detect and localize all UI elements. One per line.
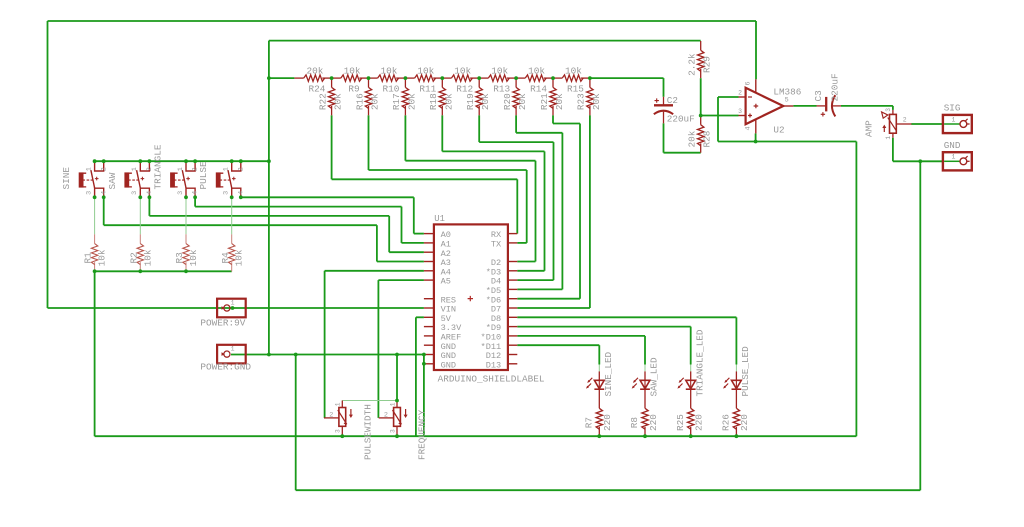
wire AMP pin2 to SIG xyxy=(911,123,943,125)
wire down to AMP pin3 xyxy=(892,106,894,110)
junction ladder left end xyxy=(267,76,271,80)
svg-text:3: 3 xyxy=(131,191,139,195)
wire R22 to RX drop xyxy=(331,115,333,179)
svg-text:20k: 20k xyxy=(480,93,491,110)
resistor R26 (220) xyxy=(733,399,739,436)
junction FREQUENCY pin3 rail xyxy=(395,434,399,438)
svg-text:PULSE: PULSE xyxy=(198,161,209,190)
junction button1 pin4 xyxy=(102,195,106,199)
resistor R19 (20k) xyxy=(476,78,482,115)
wire 9V net top border horizontal xyxy=(48,20,757,22)
svg-text:1: 1 xyxy=(335,402,342,406)
wire R22 to RX horizontal xyxy=(332,178,518,180)
resistor R11 (10k) xyxy=(405,75,442,81)
wire R22 to RX vertical xyxy=(516,179,518,233)
junction button1 pin1 xyxy=(93,159,97,163)
pushbutton S4 PULSE xyxy=(216,161,241,197)
svg-text:1: 1 xyxy=(231,346,235,353)
junction LED resistor rail xyxy=(643,434,647,438)
wire R21 to D6 horizontal xyxy=(553,123,580,125)
svg-text:R8: R8 xyxy=(629,417,640,429)
resistor R21 (20k) xyxy=(550,78,556,115)
svg-text:3: 3 xyxy=(85,191,93,195)
junction button2 pin2 xyxy=(148,159,152,163)
resistor R1 (10k) xyxy=(91,234,97,271)
svg-text:1: 1 xyxy=(231,300,235,307)
wire R18 to D3 vertical xyxy=(544,151,546,270)
svg-text:1: 1 xyxy=(177,167,185,171)
svg-text:FREQUENCY: FREQUENCY xyxy=(416,409,427,460)
wire button pin3 to R4 xyxy=(231,197,233,234)
svg-text:R25: R25 xyxy=(675,414,686,431)
wire D pin to PULSE_LED xyxy=(517,316,736,318)
svg-text:R20: R20 xyxy=(502,93,513,110)
wire R16 to TX horizontal xyxy=(369,169,527,171)
svg-text:2: 2 xyxy=(738,90,742,97)
resistor R3 (10k) xyxy=(183,234,189,271)
wire R23 to D7 into pin xyxy=(517,307,590,309)
wire R20 to D5 horizontal xyxy=(516,132,562,134)
svg-text:10k: 10k xyxy=(454,65,471,76)
svg-text:R14: R14 xyxy=(530,84,547,95)
wire GND net horizontal xyxy=(231,354,424,356)
wire long vertical x=269 xyxy=(268,41,270,355)
wire up to GND wire xyxy=(295,355,297,491)
LED TRIANGLE_LED xyxy=(677,371,695,399)
wire R17 to D2 horizontal xyxy=(405,160,535,162)
wire R19 to D4 drop xyxy=(478,115,480,142)
junction GND pin row14 xyxy=(422,362,426,366)
pushbutton S1 SINE xyxy=(79,161,104,197)
junction ladder node 6 xyxy=(514,76,518,80)
resistor R25 (220) xyxy=(688,399,694,436)
junction button3 pin2 xyxy=(193,159,197,163)
wire PULSE_LED drop xyxy=(735,317,737,364)
connector GND output xyxy=(943,152,972,170)
wire 9V net left border vertical xyxy=(47,21,49,308)
resistor R8 (220) xyxy=(642,399,648,436)
svg-text:AMP: AMP xyxy=(864,120,875,137)
svg-text:R29: R29 xyxy=(702,56,713,73)
svg-text:PULSEWIDTH: PULSEWIDTH xyxy=(362,404,373,460)
svg-text:R24: R24 xyxy=(309,84,326,95)
connector SIG output xyxy=(943,115,972,133)
wire SAW to A2 into pin xyxy=(389,251,424,253)
IC U1 ARDUINO_SHIELDLABEL xyxy=(424,224,517,370)
wire SINE_LED drop xyxy=(598,345,600,364)
svg-text:U2: U2 xyxy=(773,125,784,136)
wire button pin3 to R2 xyxy=(139,197,141,234)
svg-text:10k: 10k xyxy=(142,249,153,266)
connector POWER:GND xyxy=(217,345,246,364)
wire PULSE to A0 into pin xyxy=(414,233,424,235)
wire SAW to A2 drop xyxy=(148,197,150,216)
svg-text:2: 2 xyxy=(903,117,907,124)
resistor R9 (10k) xyxy=(331,75,368,81)
svg-text:R12: R12 xyxy=(456,84,473,95)
wire R17 to D2 vertical xyxy=(535,161,537,262)
resistor R22 (20k) xyxy=(328,78,334,115)
resistor R17 (20k) xyxy=(402,78,408,115)
wire R17 to D2 into pin xyxy=(517,261,535,263)
wire ladder left segment xyxy=(269,77,295,79)
svg-text:2: 2 xyxy=(384,411,388,419)
potentiometer PULSEWIDTH xyxy=(324,401,353,427)
wire pin4 node to right xyxy=(756,141,857,143)
wire D pin to TRIANGLE_LED xyxy=(517,326,690,328)
svg-text:10k: 10k xyxy=(528,65,545,76)
svg-text:20k: 20k xyxy=(443,93,454,110)
svg-text:10k: 10k xyxy=(344,65,361,76)
svg-text:10k: 10k xyxy=(234,249,245,266)
wire right vertical down xyxy=(919,161,921,490)
svg-text:2: 2 xyxy=(237,167,245,171)
junction POWER:9V pin xyxy=(231,306,235,310)
wire TRIANGLE to A1 drop xyxy=(194,197,196,206)
resistor R20 (20k) xyxy=(513,78,519,115)
wire U2 out to C3 xyxy=(793,105,816,107)
wire PULSEWIDTH pin3 to rail xyxy=(341,426,343,436)
svg-text:20k: 20k xyxy=(333,93,344,110)
wire TRIANGLE to A1 into pin xyxy=(402,242,424,244)
svg-text:1: 1 xyxy=(223,167,231,171)
wire R18 to D3 horizontal xyxy=(442,150,544,152)
svg-text:4: 4 xyxy=(192,191,200,195)
svg-text:A5: A5 xyxy=(441,277,451,287)
svg-text:R9: R9 xyxy=(348,84,359,95)
svg-text:5: 5 xyxy=(785,97,789,105)
svg-text:SIG: SIG xyxy=(944,103,961,114)
svg-text:220: 220 xyxy=(694,414,705,431)
svg-text:R1: R1 xyxy=(83,252,94,264)
svg-text:R10: R10 xyxy=(383,84,400,95)
wire C3 to AMP pot xyxy=(841,105,893,107)
wire SINE to A3 vertical xyxy=(376,225,378,261)
resistor R10 (10k) xyxy=(368,75,405,81)
svg-text:20k: 20k xyxy=(591,93,602,110)
junction button4 pin4 xyxy=(239,195,243,199)
wire 5V down to rail xyxy=(415,317,417,436)
capacitor C3 (220uF) xyxy=(817,95,842,116)
resistor R13 (10k) xyxy=(479,75,516,81)
resistor R15 (10k) xyxy=(553,75,590,81)
junction R2 bottom xyxy=(138,269,142,273)
wire ladder output right segment xyxy=(590,77,664,79)
svg-text:R23: R23 xyxy=(576,93,587,110)
svg-text:1: 1 xyxy=(85,167,93,171)
wire feedback to pin4 node xyxy=(718,141,756,143)
wire to GND box xyxy=(893,160,943,162)
svg-text:20k: 20k xyxy=(406,93,417,110)
svg-text:TX: TX xyxy=(491,240,501,250)
wire bottom rail xyxy=(95,435,857,437)
junction GND/vertical xyxy=(267,353,271,357)
svg-text:PULSE_LED: PULSE_LED xyxy=(740,346,751,397)
wire GND pins down to rail xyxy=(423,364,425,436)
LED PULSE_LED xyxy=(723,371,741,399)
junction button4 pin2 xyxy=(239,159,243,163)
wire R16 to TX drop xyxy=(368,115,370,170)
junction bus / vertical xyxy=(267,159,271,163)
junction button3 pin3 xyxy=(184,195,188,199)
junction button1 pin3 xyxy=(93,195,97,199)
svg-text:20k: 20k xyxy=(687,130,698,147)
wire feedback vertical xyxy=(717,97,719,142)
svg-text:POWER:GND: POWER:GND xyxy=(200,361,251,372)
svg-text:20k: 20k xyxy=(370,93,381,110)
wire SAW to A2 vertical xyxy=(388,216,390,252)
junction ladder node 4 xyxy=(440,76,444,80)
wire SAW_LED drop xyxy=(644,336,646,365)
capacitor C2 (220uF) xyxy=(654,97,673,124)
svg-text:C2: C2 xyxy=(667,95,678,106)
junction PULSEWIDTH pin3 rail xyxy=(340,434,344,438)
wire R19 to D4 horizontal xyxy=(479,141,553,143)
svg-text:R18: R18 xyxy=(428,93,439,110)
wire C2 bottom to R28 bottom xyxy=(664,152,701,154)
svg-text:3: 3 xyxy=(885,108,892,112)
wire TRIANGLE to A1 horizontal xyxy=(195,206,401,208)
wire TRIANGLE_LED drop pale end xyxy=(690,365,692,372)
svg-text:220: 220 xyxy=(602,414,613,431)
wire pots pin1 up to GND xyxy=(396,355,398,401)
wire SAW to A2 horizontal xyxy=(149,215,389,217)
wire A5 down to FREQUENCY pin2 xyxy=(377,280,379,418)
junction ladder node 5 xyxy=(477,76,481,80)
wire button pin3 to R1 xyxy=(94,197,96,234)
svg-text:ARDUINO_SHIELDLABEL: ARDUINO_SHIELDLABEL xyxy=(438,374,545,385)
junction GND/bottom loop xyxy=(294,353,298,357)
potentiometer FREQUENCY xyxy=(379,401,408,427)
svg-text:R22: R22 xyxy=(317,93,328,110)
wire R23 to D7 vertical xyxy=(589,115,591,308)
junction LED resistor rail xyxy=(689,434,693,438)
wire U2 pin4 down xyxy=(755,133,757,141)
svg-text:R2: R2 xyxy=(128,252,139,263)
wire R21 to D6 drop xyxy=(552,115,554,123)
svg-text:R7: R7 xyxy=(584,417,595,428)
wire GND pins link xyxy=(423,355,425,364)
svg-text:220: 220 xyxy=(739,414,750,431)
svg-text:SINE_LED: SINE_LED xyxy=(603,351,614,396)
svg-text:6: 6 xyxy=(744,81,752,85)
svg-text:1: 1 xyxy=(952,154,956,161)
resistor R16 (20k) xyxy=(365,78,371,115)
wire R18 to D3 into pin xyxy=(517,270,544,272)
junction button4 pin3 xyxy=(230,195,234,199)
svg-text:4: 4 xyxy=(146,191,154,195)
wire 9V net down to U2 pin6 xyxy=(755,21,757,79)
wire D pin to SINE_LED xyxy=(517,344,599,346)
junction button3 pin4 xyxy=(193,195,197,199)
svg-text:10k: 10k xyxy=(381,65,398,76)
junction ladder node 7 xyxy=(551,76,555,80)
wire R19 to D4 vertical xyxy=(553,142,555,280)
junction U2 pin4 node xyxy=(754,140,758,144)
connector POWER:9V xyxy=(217,299,246,318)
svg-text:C3: C3 xyxy=(813,90,824,102)
svg-text:R4: R4 xyxy=(220,252,231,264)
wire A4 horizontal xyxy=(325,270,424,272)
wire 5V stub xyxy=(416,316,424,318)
svg-text:R15: R15 xyxy=(567,84,584,95)
svg-text:3: 3 xyxy=(335,429,342,433)
wire bottom horizontal xyxy=(296,489,921,491)
wire R20 to D5 into pin xyxy=(517,288,562,290)
resistor R2 (10k) xyxy=(137,234,143,271)
pushbutton S2 SAW xyxy=(124,161,149,197)
wire SAW_LED drop pale end xyxy=(644,365,646,372)
svg-text:3: 3 xyxy=(223,191,231,195)
svg-text:R13: R13 xyxy=(493,84,510,95)
svg-text:1: 1 xyxy=(952,116,956,123)
svg-text:1: 1 xyxy=(131,167,139,171)
pushbutton S3 TRIANGLE xyxy=(170,161,195,197)
wire button pin3 to R3 xyxy=(185,197,187,234)
svg-text:GND: GND xyxy=(944,140,961,151)
wire 9V net to POWER:9V and U1 VIN xyxy=(48,307,424,309)
svg-text:3: 3 xyxy=(389,429,396,433)
junction LED resistor rail xyxy=(735,434,739,438)
wire PULSE to A0 horizontal xyxy=(241,196,414,198)
svg-text:4: 4 xyxy=(744,126,752,130)
wire A4 down to PULSEWIDTH pin2 xyxy=(324,271,326,418)
svg-text:POWER:9V: POWER:9V xyxy=(200,318,245,329)
junction button4 pin1 xyxy=(230,159,234,163)
svg-text:R26: R26 xyxy=(721,414,732,431)
svg-text:TRIANGLE_LED: TRIANGLE_LED xyxy=(694,329,705,396)
wire SINE to A3 drop xyxy=(103,197,105,225)
svg-text:SAW: SAW xyxy=(107,172,118,189)
wire R21 to D6 into pin xyxy=(517,298,580,300)
resistor R24 (20k) xyxy=(294,75,331,81)
wire down to bottom rail xyxy=(855,142,857,437)
wire bus down to rail xyxy=(94,271,96,436)
svg-text:GND: GND xyxy=(441,360,456,370)
svg-text:1: 1 xyxy=(885,136,892,140)
svg-text:220uF: 220uF xyxy=(830,73,841,101)
junction button1 pin2 xyxy=(102,159,106,163)
resistor R29 (2.2k) xyxy=(698,41,704,78)
junction ladder node 1 xyxy=(330,76,334,80)
svg-text:4: 4 xyxy=(237,191,245,195)
junction R29/R28/pin3 node xyxy=(699,114,703,118)
junction ladder node 2 xyxy=(367,76,371,80)
svg-text:3: 3 xyxy=(738,108,742,115)
wire pots pin1 bus xyxy=(342,400,397,402)
svg-text:10k: 10k xyxy=(565,65,582,76)
wire R20 to D5 drop xyxy=(515,115,517,133)
svg-text:2: 2 xyxy=(100,167,108,171)
svg-text:R17: R17 xyxy=(391,93,402,110)
junction GND/pots xyxy=(395,353,399,357)
wire AMP pin1 down xyxy=(892,138,894,162)
wire D pin to SAW_LED xyxy=(517,335,645,337)
wire A5 horizontal xyxy=(378,279,424,281)
wire SINE to A3 horizontal xyxy=(104,224,377,226)
svg-text:U1: U1 xyxy=(434,214,445,224)
resistor R7 (220) xyxy=(596,399,602,436)
potentiometer AMP xyxy=(882,110,912,138)
wire R16 to TX into pin xyxy=(517,242,526,244)
wire node to U2 pin3 xyxy=(701,115,739,117)
svg-text:20k: 20k xyxy=(554,93,565,110)
svg-text:R11: R11 xyxy=(419,84,436,95)
LED SAW_LED xyxy=(632,371,650,399)
wire FREQUENCY pin3 to rail xyxy=(396,426,398,436)
junction button2 pin3 xyxy=(138,195,142,199)
junction button2 pin1 xyxy=(138,159,142,163)
resistor R4 (10k) xyxy=(228,234,234,271)
svg-text:R3: R3 xyxy=(174,252,185,264)
svg-text:R19: R19 xyxy=(465,93,476,110)
wire C2 bottom vertical xyxy=(663,123,665,152)
svg-text:4: 4 xyxy=(100,191,108,195)
svg-text:220uF: 220uF xyxy=(667,113,695,124)
svg-text:D13: D13 xyxy=(486,360,501,370)
junction ladder node 8 xyxy=(588,76,592,80)
wire U2 pin2 horizontal xyxy=(718,96,739,98)
wire R18 to D3 drop xyxy=(441,115,443,151)
svg-text:3: 3 xyxy=(177,191,185,195)
wire R17 to D2 drop xyxy=(404,115,406,160)
wire R21 to D6 vertical xyxy=(579,124,581,299)
junction R1 bottom xyxy=(93,269,97,273)
wire net to R29 top horizontal xyxy=(269,40,701,42)
wire PULSE to A0 vertical xyxy=(413,197,415,233)
svg-text:R28: R28 xyxy=(702,130,713,147)
svg-text:20k: 20k xyxy=(307,65,324,76)
wire R20 to D5 vertical xyxy=(561,133,563,290)
svg-text:SINE: SINE xyxy=(61,167,72,190)
svg-text:1: 1 xyxy=(389,402,396,406)
resistor R28 (20k) xyxy=(698,116,704,153)
svg-text:R16: R16 xyxy=(354,93,365,110)
wire R1-R4 bottom bus xyxy=(95,270,232,272)
resistor R14 (10k) xyxy=(516,75,553,81)
svg-text:20k: 20k xyxy=(517,93,528,110)
svg-text:SAW_LED: SAW_LED xyxy=(649,357,660,396)
resistor R18 (20k) xyxy=(439,78,445,115)
wire SINE_LED drop pale end xyxy=(598,365,600,372)
svg-text:2.2k: 2.2k xyxy=(687,53,698,76)
wire down to C2 top xyxy=(663,78,665,97)
wire SINE to A3 into pin xyxy=(377,261,424,263)
junction GND pin row13 xyxy=(422,353,426,357)
svg-text:10k: 10k xyxy=(188,249,199,266)
wire PULSE_LED drop pale end xyxy=(735,365,737,372)
wire TRIANGLE to A1 vertical xyxy=(401,207,403,243)
op-amp U2 LM386 xyxy=(739,79,794,133)
svg-text:10k: 10k xyxy=(491,65,508,76)
wire R29 bottom to node xyxy=(700,78,702,115)
resistor R23 (20k) xyxy=(587,78,593,115)
junction ladder node 3 xyxy=(404,76,408,80)
svg-text:220: 220 xyxy=(648,414,659,431)
junction R3 bottom xyxy=(184,269,188,273)
wire R16 to TX vertical xyxy=(526,170,528,243)
wire R19 to D4 into pin xyxy=(517,279,553,281)
svg-text:R21: R21 xyxy=(539,93,550,110)
junction button2 pin4 xyxy=(148,195,152,199)
junction button3 pin1 xyxy=(184,159,188,163)
wire TRIANGLE_LED drop xyxy=(690,327,692,365)
svg-text:10k: 10k xyxy=(417,65,434,76)
svg-text:10k: 10k xyxy=(97,249,108,266)
junction GND output node xyxy=(918,159,922,163)
junction pots pin1 bus xyxy=(395,399,399,403)
LED SINE_LED xyxy=(586,371,604,399)
